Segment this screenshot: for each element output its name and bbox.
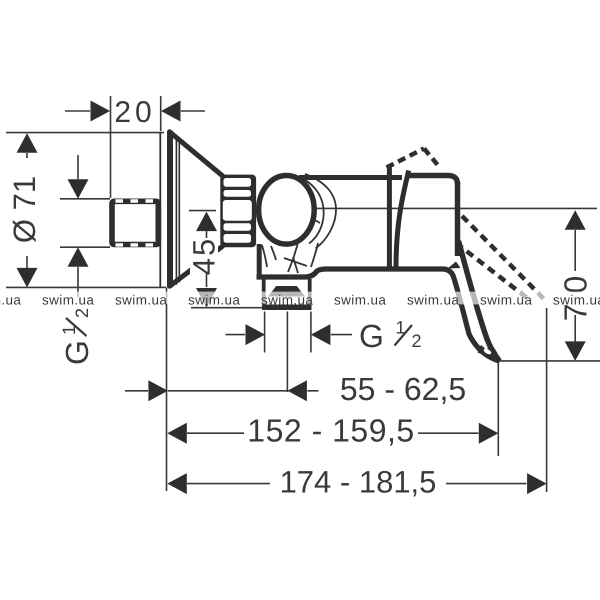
dimension 45 bbox=[187, 211, 222, 308]
nut bbox=[220, 175, 256, 248]
dimension 70 bbox=[558, 210, 594, 361]
svg-text:2: 2 bbox=[412, 331, 422, 351]
lever pivot wedge bbox=[448, 262, 461, 269]
outlet collar plateau bbox=[268, 286, 305, 297]
ext line lever tip bbox=[497, 361, 499, 456]
outlet collar sides bbox=[264, 279, 310, 305]
escutcheon cone bottom slant bbox=[170, 246, 223, 286]
escutcheon back thin line bbox=[159, 132, 161, 287]
svg-text:174 - 181,5: 174 - 181,5 bbox=[280, 464, 437, 499]
svg-text:2: 2 bbox=[72, 308, 92, 318]
ext line outlet center bbox=[286, 312, 288, 393]
dashed swung lever edge 2 bbox=[456, 243, 531, 301]
dia71 top line bbox=[6, 132, 164, 134]
svg-text:G: G bbox=[59, 340, 95, 365]
svg-text:swim.ua: swim.ua bbox=[553, 293, 600, 308]
ext line outlet left bbox=[264, 312, 266, 353]
svg-text:swim.ua: swim.ua bbox=[334, 293, 386, 308]
svg-text:45: 45 bbox=[187, 237, 222, 275]
body top edge bbox=[299, 175, 402, 180]
dimension 20 bbox=[65, 96, 205, 129]
svg-text:swim.ua: swim.ua bbox=[115, 293, 167, 308]
dimension 152 - 159,5 bbox=[167, 413, 498, 449]
lever tip solid bbox=[478, 345, 500, 361]
dimension 174 - 181,5 bbox=[167, 464, 546, 499]
ext line 20 right bbox=[160, 96, 162, 131]
svg-text:swim.ua: swim.ua bbox=[188, 293, 240, 308]
ext line dashed lever tip bbox=[546, 308, 548, 492]
outlet nipple bottom strip bbox=[262, 305, 312, 311]
handle base top edge bbox=[409, 176, 458, 185]
dia71 bottom line bbox=[6, 286, 167, 288]
ext line outlet right bbox=[310, 312, 312, 353]
escutcheon plate thick line bbox=[167, 131, 173, 288]
ball inner arcs bbox=[288, 174, 336, 272]
handle base left slant bbox=[396, 171, 409, 268]
ext line wall plane bbox=[166, 288, 168, 491]
svg-text:swim.ua: swim.ua bbox=[0, 293, 21, 308]
watermark texts bbox=[0, 293, 600, 308]
svg-text:55 - 62,5: 55 - 62,5 bbox=[340, 371, 466, 407]
svg-text:swim.ua: swim.ua bbox=[480, 293, 532, 308]
dimension G 1/2 middle bbox=[226, 318, 422, 355]
body bottom edge + outlet flange + lever left edge bbox=[257, 269, 500, 361]
dashed raised lever bbox=[387, 149, 440, 168]
nipple bottom tick bbox=[60, 246, 110, 248]
centerline bbox=[316, 207, 597, 209]
ext line 20 left bbox=[110, 96, 112, 198]
svg-text:G: G bbox=[359, 318, 384, 354]
spout thin detail lines bbox=[262, 245, 307, 273]
dimension 55 - 62,5 bbox=[125, 371, 466, 407]
spout left vertical bbox=[257, 244, 262, 275]
escutcheon inner cone lines bbox=[176, 135, 179, 285]
svg-text:152 - 159,5: 152 - 159,5 bbox=[247, 413, 414, 449]
dimension G 1/2 left leader bbox=[59, 155, 95, 365]
thin extension lines bbox=[6, 96, 600, 492]
dimension dia 71 bbox=[7, 133, 42, 287]
escutcheon cone top slant bbox=[170, 132, 223, 176]
lever right edge bbox=[459, 241, 500, 361]
svg-text:20: 20 bbox=[114, 96, 155, 129]
dashed swung lever edge 1 bbox=[462, 216, 547, 302]
svg-text:swim.ua: swim.ua bbox=[261, 293, 313, 308]
lever tip plane bbox=[500, 360, 600, 362]
svg-text:swim.ua: swim.ua bbox=[407, 293, 459, 308]
svg-text:swim.ua: swim.ua bbox=[42, 293, 94, 308]
wall nipple block bbox=[112, 201, 158, 245]
joint left vertical bbox=[387, 167, 392, 268]
outlet end plane line bbox=[191, 307, 262, 309]
body right edge bbox=[455, 182, 461, 256]
nipple top tick bbox=[60, 198, 110, 200]
watermark band bbox=[0, 292, 600, 305]
ball housing bbox=[259, 176, 315, 245]
svg-text:Ø 71: Ø 71 bbox=[7, 176, 42, 243]
lever tip inner highlight bbox=[483, 347, 492, 355]
